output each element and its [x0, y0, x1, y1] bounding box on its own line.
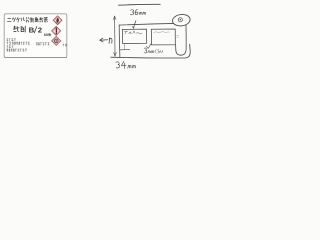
svg-text:2: 2 — [38, 25, 42, 34]
scribble inside left label — [125, 31, 143, 34]
hazard diamond 2 (exclamation) — [52, 26, 61, 35]
sheet band inner bottom stub — [120, 48, 130, 51]
dimension arrowhead bottom — [114, 52, 117, 56]
dimension arrowhead top — [113, 16, 116, 20]
small text row 4 — [7, 49, 27, 52]
tiny note next to diamond3 — [63, 44, 67, 46]
vertical dimension line left — [114, 16, 116, 56]
handwritten 34mm bottom dimension — [116, 62, 120, 68]
title row: nickel analysis reagent text — [7, 18, 11, 21]
handwritten 36mm top dimension — [130, 10, 133, 15]
gap check mark between labels — [146, 44, 151, 49]
tick above left label — [133, 21, 136, 29]
handwritten 3mm-kurai gap note — [144, 48, 147, 53]
label box bottom edge accent — [5, 57, 67, 59]
roll core — [178, 18, 182, 22]
sheet hook from roll (right side J) — [176, 25, 187, 55]
row2 kanji — [13, 26, 19, 32]
label rectangle right — [151, 29, 175, 45]
hazard diamond 3 (health) — [52, 36, 61, 45]
sheet band top edge — [119, 23, 180, 25]
label roll ellipse — [172, 13, 191, 26]
top straight line — [119, 3, 161, 6]
label rectangle left — [122, 29, 146, 43]
long bottom line with right curl — [111, 44, 190, 58]
small text row 3 — [7, 46, 14, 48]
svg-text:B: B — [29, 25, 35, 34]
small text row 1 — [7, 39, 16, 41]
tick under left label — [123, 44, 125, 49]
svg-text:60: 60 — [44, 33, 48, 37]
tiny note right of right label — [176, 35, 179, 37]
left arrow annotation — [100, 38, 108, 42]
small text row 2 — [7, 42, 30, 45]
scribble inside right label — [154, 32, 170, 33]
annotation glyph n — [109, 38, 112, 44]
label box border — [4, 14, 67, 58]
hazard diamond 1 (flame) — [53, 16, 62, 25]
sheet band left edge — [118, 25, 121, 57]
small text row 2b — [36, 43, 49, 46]
